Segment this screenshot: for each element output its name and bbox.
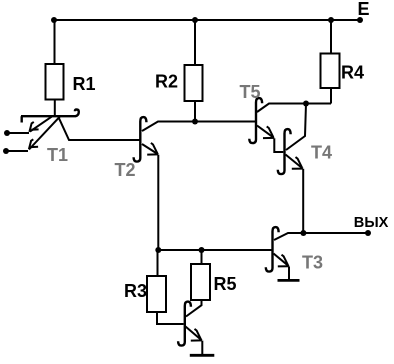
- transistor T5 collector wire to R4: [257, 104, 331, 113]
- svg-text:R3: R3: [124, 281, 147, 301]
- transistor T6 collector wire to R5: [186, 299, 202, 317]
- wire: top power rail E: [54, 19, 360, 21]
- wire: T2 emitter down: [157, 155, 159, 250]
- transistor T1 (multi-emitter) base bar: [21, 110, 79, 123]
- transistor T1 collector wire to T2 base: [59, 117, 141, 140]
- node: T5/T4 collector junction: [303, 101, 309, 107]
- wire: T5 emitter to T4 base: [274, 138, 283, 152]
- wire: T4 emitter down to output node: [302, 169, 304, 233]
- wire: R4 bottom lead: [330, 88, 332, 104]
- arrowhead T1 emitter 2: [29, 139, 38, 149]
- wire: R2 top lead: [194, 20, 196, 65]
- wire: R1 bottom lead to T1 base: [54, 99, 56, 115]
- transistor T5 emitter: [257, 126, 274, 138]
- node: R2 top junction: [192, 17, 198, 23]
- node: E terminal: [357, 17, 363, 23]
- wire: R3 bottom lead to T6 base: [157, 312, 184, 324]
- arrowhead T2 emitter: [147, 143, 158, 155]
- resistor R2: [185, 65, 203, 101]
- ground (T6): [190, 354, 215, 357]
- arrowhead T3 emitter: [278, 255, 289, 267]
- svg-text:T2: T2: [115, 160, 136, 180]
- wire: R2 bottom lead: [194, 101, 196, 122]
- wire: bottom bus from T2 emitter to T3 base: [158, 249, 271, 251]
- node: input 1 terminal: [4, 130, 10, 136]
- svg-text:R5: R5: [214, 274, 237, 294]
- svg-text:T4: T4: [311, 143, 332, 163]
- transistor T3 collector wire to output: [274, 233, 368, 240]
- transistor T1 emitter 1: [30, 116, 52, 131]
- svg-text:R4: R4: [341, 62, 364, 82]
- resistor R4: [321, 54, 340, 89]
- node: input 2 terminal: [3, 148, 9, 154]
- ground (T3): [278, 279, 300, 282]
- transistor T5 base bar: [249, 98, 262, 143]
- transistor T4 collector wire to junction: [286, 104, 306, 151]
- wire: T6 emitter to ground: [201, 341, 203, 354]
- node: output terminal: [365, 230, 371, 236]
- transistor T2 collector wire to R2 and T5 base: [142, 122, 255, 132]
- transistor T3 base bar: [266, 227, 279, 272]
- svg-text:T5: T5: [240, 82, 261, 102]
- wire: R4 top lead: [330, 20, 332, 54]
- resistor R1: [46, 64, 64, 100]
- transistor T3 emitter: [274, 254, 289, 267]
- arrowhead T1 emitter 1: [29, 122, 38, 132]
- svg-text:ВЫХ: ВЫХ: [354, 215, 389, 231]
- svg-text:E: E: [358, 0, 370, 19]
- wire: input 1: [8, 132, 29, 134]
- transistor T2 base bar: [134, 117, 147, 162]
- wire: T3 emitter to ground: [288, 266, 290, 279]
- node: rail left end: [51, 17, 57, 23]
- svg-text:T1: T1: [47, 145, 68, 165]
- arrowhead T6 emitter: [191, 329, 202, 341]
- transistor T1 emitter 2: [29, 116, 60, 149]
- transistor T4 emitter: [286, 155, 303, 169]
- resistor R3: [147, 276, 166, 312]
- node: R2 bottom junction: [192, 119, 198, 125]
- wire: R5 top lead: [201, 250, 203, 264]
- transistor T6 emitter: [186, 327, 202, 341]
- svg-text:R1: R1: [73, 74, 96, 94]
- node: R3 junction: [155, 247, 161, 253]
- transistor T2 emitter: [142, 144, 158, 154]
- wire: input 2: [7, 150, 28, 152]
- node: R5 junction: [199, 247, 205, 253]
- wire: R1 top lead: [54, 20, 56, 64]
- svg-text:R2: R2: [155, 72, 178, 92]
- node: output junction: [300, 230, 306, 236]
- wire: R3 top lead: [157, 250, 159, 276]
- arrowhead T5 emitter: [263, 126, 274, 138]
- node: R4 top junction: [328, 17, 334, 23]
- resistor R5: [191, 264, 210, 300]
- svg-text:T3: T3: [302, 253, 323, 273]
- transistor T4 base bar: [278, 129, 291, 174]
- transistor T6 base bar: [178, 302, 191, 346]
- arrowhead T4 emitter: [292, 157, 303, 169]
